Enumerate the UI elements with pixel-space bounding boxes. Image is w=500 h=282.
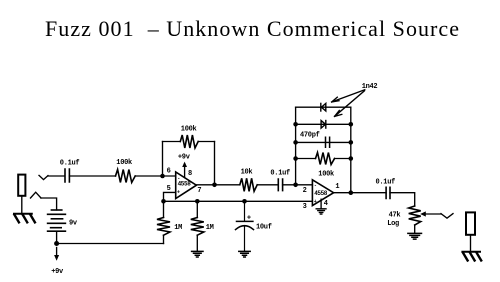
node pin2 junction bbox=[293, 183, 298, 188]
svg-text:4558: 4558 bbox=[314, 190, 328, 197]
capacitor C5 10uf electrolytic bbox=[236, 201, 254, 251]
diode D1 1n42 left-pointing bbox=[321, 103, 326, 111]
svg-text:470pf: 470pf bbox=[300, 132, 320, 140]
wire jack to ground bbox=[21, 196, 23, 214]
node left rail branch4 bbox=[293, 156, 298, 161]
wire feedback top left bbox=[163, 141, 181, 143]
svg-text:+9v: +9v bbox=[178, 153, 191, 161]
svg-text:0.1uf: 0.1uf bbox=[270, 169, 290, 177]
ground under 10uf bbox=[239, 251, 250, 257]
wire diode branch 2 bbox=[296, 123, 351, 125]
svg-text:1M: 1M bbox=[206, 224, 214, 232]
svg-text:+: + bbox=[177, 190, 180, 196]
switch contact tip (input) bbox=[39, 175, 48, 179]
resistor R4 100k feedback op2 bbox=[316, 153, 335, 165]
node left rail branch2 bbox=[293, 122, 298, 127]
potentiometer R5 47k Log bbox=[409, 206, 421, 225]
node output junction bbox=[349, 190, 354, 195]
chassis ground output bbox=[462, 252, 481, 261]
svg-text:5: 5 bbox=[167, 185, 171, 193]
wire feedback top right bbox=[198, 141, 214, 143]
wire diode branch 1 bbox=[296, 106, 351, 108]
wire cap branch 3 bbox=[296, 141, 351, 143]
ground op-amp pin4 bbox=[316, 199, 326, 214]
output jack J2 bbox=[466, 212, 475, 234]
wire to C1 bbox=[48, 175, 65, 177]
capacitor C3 470pf bbox=[326, 137, 330, 147]
svg-text:10uf: 10uf bbox=[256, 223, 272, 231]
svg-text:9v: 9v bbox=[69, 220, 78, 228]
node right rail branch3 bbox=[349, 140, 354, 145]
svg-text:10k: 10k bbox=[241, 168, 253, 176]
ground under 1M bbox=[192, 251, 203, 257]
pot wiper arrow bbox=[420, 211, 441, 216]
node left rail branch3 bbox=[293, 140, 298, 145]
label 1n42 with pointer arrows bbox=[362, 83, 378, 91]
resistor 1M bias upper bbox=[157, 201, 170, 243]
input jack J1 bbox=[18, 175, 25, 196]
svg-text:-: - bbox=[314, 183, 317, 189]
svg-text:2: 2 bbox=[303, 187, 307, 195]
wire switch to battery bbox=[41, 198, 57, 210]
resistor R3 10k bbox=[240, 178, 257, 191]
wire +9v feed to bias bbox=[57, 243, 164, 245]
svg-text:0.1uf: 0.1uf bbox=[376, 179, 396, 187]
svg-text:Log: Log bbox=[387, 220, 399, 228]
node vref rail left bbox=[161, 199, 166, 204]
svg-text:3: 3 bbox=[303, 203, 307, 211]
wire C4 to pot bbox=[390, 193, 415, 206]
power +9v arrow op-amp1 pin8 bbox=[182, 162, 187, 178]
svg-text:100k: 100k bbox=[181, 125, 197, 133]
svg-text:1M: 1M bbox=[174, 224, 182, 232]
wire fb network right rail bbox=[350, 107, 352, 193]
capacitor C1 0.1uf bbox=[65, 169, 69, 182]
title bbox=[45, 16, 459, 41]
node right rail branch4 bbox=[349, 156, 354, 161]
svg-text:0.1uf: 0.1uf bbox=[60, 160, 80, 168]
diode D2 1n42 right-pointing bbox=[321, 121, 326, 129]
ground under pot bbox=[408, 233, 422, 239]
svg-text:Fuzz 001 – Unknown Commerical: Fuzz 001 – Unknown Commerical Source bbox=[45, 16, 459, 41]
capacitor C4 0.1uf output bbox=[386, 187, 390, 198]
wire battery to node bbox=[56, 231, 58, 243]
switch contact tip (output) bbox=[441, 214, 453, 219]
chassis ground input bbox=[14, 214, 35, 223]
svg-text:47k: 47k bbox=[389, 212, 401, 220]
wire op1 output row bbox=[196, 184, 239, 186]
svg-text:1: 1 bbox=[335, 183, 339, 191]
pin label 8 bbox=[188, 170, 192, 178]
wire C2 to pin2 bbox=[283, 184, 313, 186]
switch contact ring (battery) bbox=[31, 192, 42, 198]
resistor 1M bias lower bbox=[191, 201, 204, 251]
wire jack2 to ground bbox=[470, 235, 472, 252]
wire R1 to pin6 bbox=[135, 175, 176, 177]
svg-text:-: - bbox=[177, 175, 180, 181]
wire pin5 bbox=[164, 192, 176, 201]
node pin6 junction bbox=[160, 174, 165, 179]
wire fb network left rail bbox=[295, 107, 297, 185]
op-amp U1a 4558 bbox=[176, 172, 197, 199]
node 10uf top bbox=[242, 199, 247, 204]
node battery junction bbox=[54, 241, 59, 246]
wire resistor branch 4 bbox=[296, 158, 351, 160]
wire vref rail bbox=[164, 200, 313, 202]
wire R3 to C2 bbox=[257, 184, 278, 186]
svg-text:100k: 100k bbox=[116, 159, 132, 167]
svg-text:8: 8 bbox=[188, 170, 192, 178]
svg-text:+: + bbox=[314, 199, 317, 205]
svg-text:100k: 100k bbox=[318, 171, 334, 179]
arrow pointer to D2 bbox=[335, 91, 365, 117]
arrow pointer to D1 bbox=[332, 90, 365, 102]
svg-text:6: 6 bbox=[167, 168, 171, 176]
node feedback output junction bbox=[212, 183, 217, 188]
battery B1 9v bbox=[48, 210, 66, 231]
svg-text:4558: 4558 bbox=[178, 181, 192, 188]
node 1M2 top bbox=[195, 199, 200, 204]
svg-text:4: 4 bbox=[324, 200, 328, 208]
power +9v arrow down bbox=[54, 248, 59, 261]
svg-text:+: + bbox=[247, 215, 251, 223]
node right rail branch2 bbox=[349, 122, 354, 127]
svg-text:7: 7 bbox=[197, 187, 201, 195]
wire C1 to R1 bbox=[69, 175, 115, 177]
capacitor C2 0.1uf bbox=[278, 179, 282, 191]
resistor R1 100k bbox=[116, 170, 136, 183]
wire feedback left vertical bbox=[162, 142, 164, 177]
wire op2 output bbox=[334, 192, 387, 194]
resistor R2 100k feedback bbox=[180, 135, 198, 148]
svg-text:+9v: +9v bbox=[51, 268, 64, 276]
wire feedback right vertical bbox=[214, 142, 216, 185]
op-amp U1b 4558 bbox=[312, 180, 333, 206]
wire pot to ground bbox=[414, 225, 416, 233]
